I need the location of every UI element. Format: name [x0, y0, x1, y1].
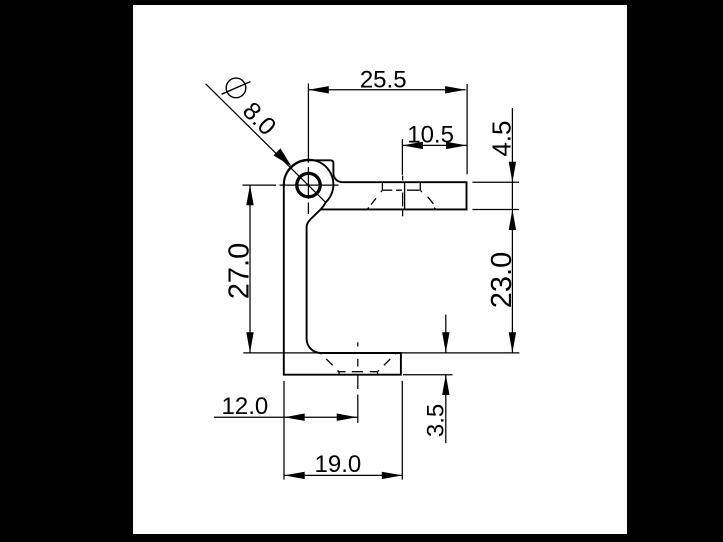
19.0 left arrow: [284, 472, 305, 479]
foot countersink right cone: [378, 353, 397, 372]
23.0 bottom arrow: [509, 332, 516, 353]
svg-text:23.0: 23.0: [486, 252, 518, 308]
foot throat ticks: [338, 372, 340, 375]
Ø8.0 leader line: [206, 84, 326, 203]
25.5 right arrow: [445, 86, 466, 93]
hole circle (Ø bore): [297, 173, 320, 196]
bottom left extension: [283, 381, 285, 480]
27.0 bottom arrow: [246, 332, 253, 353]
svg-text:19.0: 19.0: [315, 451, 362, 478]
3.5 dim line upper: [445, 315, 447, 353]
12.0 left arrow: [284, 414, 305, 421]
12.0 right arrow: [337, 414, 358, 421]
10.5 left extension: [401, 139, 403, 175]
leader arrow: [274, 148, 292, 166]
white drawing sheet: [133, 5, 627, 534]
arm countersink left cone: [367, 190, 382, 209]
foot countersink hidden lines: [320, 353, 396, 375]
25.5/10.5 right extension: [466, 84, 468, 174]
4.5 bottom / 23.0 top arrow: [509, 210, 516, 231]
3.5 top arrow: [442, 332, 449, 353]
arm slot hidden ticks: [367, 182, 435, 209]
svg-text:25.5: 25.5: [360, 66, 407, 93]
svg-text:3.5: 3.5: [422, 404, 449, 437]
boss horizontal centerline / 27.0 extension: [242, 184, 338, 186]
25.5 dim line: [308, 89, 465, 91]
10.5 left arrow: [402, 142, 423, 149]
27.0 dim line: [249, 185, 251, 353]
boss vertical centerline / 25.5 extension: [307, 84, 309, 215]
bottom right extension (19.0): [401, 381, 403, 480]
19.0 dim line: [284, 474, 402, 476]
extension lines: [243, 84, 519, 480]
23.0 / 4.5 dim line: [511, 108, 513, 353]
svg-text:10.5: 10.5: [407, 122, 454, 149]
19.0 right arrow: [382, 472, 403, 479]
27.0 top arrow: [246, 185, 253, 206]
arm countersink right cone: [420, 190, 435, 209]
arm top right extension: [472, 181, 519, 183]
10.5 right arrow: [446, 142, 467, 149]
dimension lines: [206, 84, 513, 476]
arm slot visible edge: [404, 182, 406, 209]
svg-text:27.0: 27.0: [224, 243, 256, 299]
diameter symbol of Ø8.0: [222, 78, 251, 98]
3.5 dim line lower: [445, 375, 447, 444]
arrowheads: [246, 86, 516, 479]
4.5 top arrow: [509, 162, 516, 183]
arm bottom right extension: [472, 209, 519, 211]
3.5 bottom arrow: [442, 375, 449, 396]
svg-text:4.5: 4.5: [487, 121, 517, 157]
svg-text:12.0: 12.0: [222, 393, 269, 420]
foot hole centerline: [357, 342, 359, 423]
boss outer circle arc: [284, 160, 334, 210]
arm hole centerline: [402, 176, 404, 217]
foot throat hidden horizontal: [337, 371, 345, 373]
10.5 dim line: [402, 144, 466, 146]
12.0 dim line: [214, 416, 357, 418]
foot top extension (spans left and right): [243, 352, 519, 354]
arm slot hidden horizontal: [383, 189, 392, 191]
25.5 left arrow: [308, 86, 329, 93]
foot bottom right extension: [403, 374, 453, 376]
foot countersink left cone: [320, 353, 339, 372]
dimension texts: [222, 66, 518, 478]
part outline: bracket silhouette: [284, 160, 467, 374]
